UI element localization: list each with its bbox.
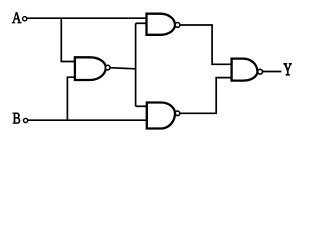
input terminal A <box>23 17 27 21</box>
wire A branch down to U1 upper input <box>61 18 75 61</box>
input label A <box>12 12 21 23</box>
wire N1 to U3 upper input <box>136 105 147 107</box>
U1 output bubble <box>105 65 110 70</box>
U4 output bubble <box>258 69 263 74</box>
wire U3 output to U4 lower input <box>180 78 232 114</box>
wire U2 output to U4 upper input <box>180 25 232 64</box>
U3 output bubble <box>175 111 180 116</box>
wire B to U3 lower input <box>28 119 147 121</box>
input terminal B <box>24 118 28 122</box>
nand gate U2 (top, inputs A and N1) <box>147 14 176 35</box>
wire A to U2 upper input <box>27 17 147 19</box>
wire N1 to U2 lower input <box>136 22 147 24</box>
wire B branch up to U1 lower input <box>67 77 75 120</box>
output label Y <box>284 64 292 76</box>
nand gate U1 (middle, inputs A and B) <box>75 57 106 80</box>
input label B <box>13 113 20 124</box>
U2 output bubble <box>175 23 180 28</box>
wire U1 output to node N1 <box>110 68 136 69</box>
node N1 vertical distribution wire <box>135 23 137 106</box>
nand gate U3 (bottom, inputs N1 and B) <box>147 103 175 129</box>
nand gate U4 (output gate) <box>232 59 258 81</box>
wire U4 output to Y <box>262 71 281 73</box>
